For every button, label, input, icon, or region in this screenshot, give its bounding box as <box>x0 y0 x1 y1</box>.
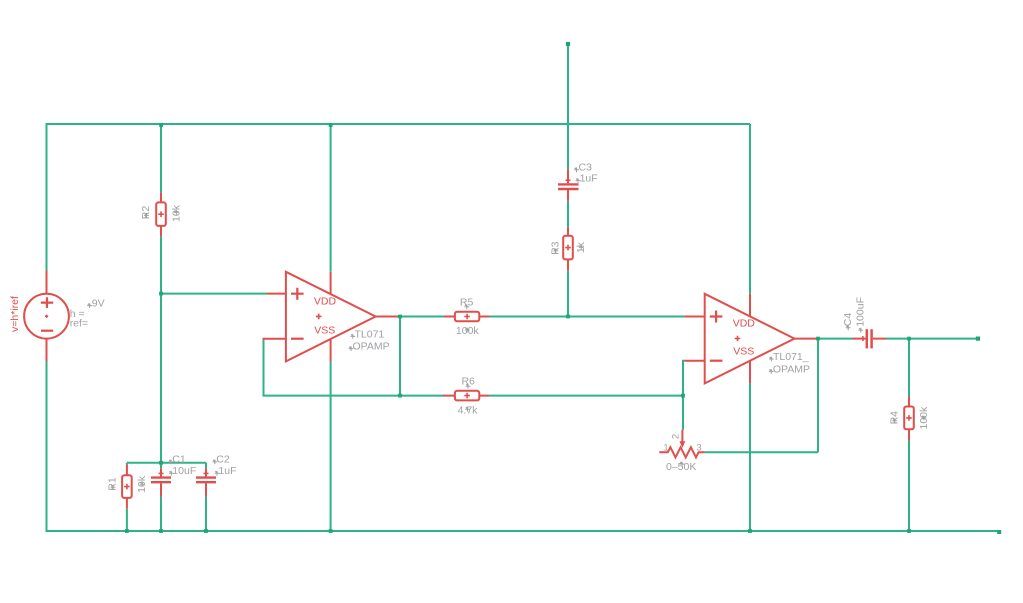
label anchor C2 value <box>215 471 220 476</box>
wire node A vertical <box>399 317 401 396</box>
label anchor RP1 value <box>680 462 685 467</box>
svg-text:10uF: 10uF <box>172 465 196 477</box>
node terminal output right <box>976 337 980 341</box>
node junction U1 output <box>398 315 402 319</box>
wire left rail upper <box>46 123 48 271</box>
label anchor R5 <box>464 304 469 309</box>
svg-text:TL071: TL071 <box>355 328 385 340</box>
svg-text:TL071_: TL071_ <box>773 351 809 363</box>
node junction R6 line <box>398 394 402 398</box>
wire C1 drop <box>160 463 162 468</box>
node terminal C3 top <box>566 42 570 46</box>
wire top bus <box>47 123 751 125</box>
wire R5 to U2 noninverting <box>489 316 684 318</box>
label anchor R3 <box>553 248 558 253</box>
node junction U2 output <box>816 337 820 341</box>
wire R6 line right <box>489 395 683 397</box>
label anchor R2 <box>144 213 149 218</box>
node junction U2 inverting <box>681 394 685 398</box>
label anchor R3 value <box>579 245 584 250</box>
capacitor C1 <box>151 468 171 496</box>
wire C3 column top <box>567 43 569 169</box>
svg-text:2: 2 <box>670 434 681 439</box>
svg-text:C4: C4 <box>842 313 854 327</box>
label anchor U1 part <box>350 334 355 339</box>
wire bottom rail <box>46 530 1000 532</box>
svg-text:100uF: 100uF <box>855 297 867 327</box>
label anchor U1 name <box>349 346 354 351</box>
wire U2 inverting column <box>683 361 684 430</box>
wire C3 to R3 <box>567 201 569 228</box>
node junction C4 R4 <box>907 337 911 341</box>
svg-text:VSS: VSS <box>733 345 754 357</box>
svg-text:VDD: VDD <box>314 296 337 308</box>
wire R4 column upper <box>908 339 910 397</box>
svg-text:VSS: VSS <box>314 325 335 337</box>
svg-text:R2: R2 <box>140 206 152 220</box>
op-amp U2 <box>684 294 816 384</box>
label anchor V1 9V <box>87 303 92 308</box>
capacitor C2 <box>196 468 216 496</box>
wire R1 drop <box>126 463 128 465</box>
label anchor C1 <box>169 460 174 465</box>
label anchor R4 <box>892 418 897 423</box>
voltage source V1 <box>24 271 69 362</box>
wire VSS1 column <box>330 361 332 531</box>
wire R4 column lower <box>908 441 910 532</box>
wire R6 line left <box>263 395 445 397</box>
resistor R5 <box>444 312 490 322</box>
wire C2 drop <box>205 463 207 468</box>
wire R3 down <box>567 271 569 317</box>
node terminal ground right <box>997 530 1001 534</box>
label anchor U2 name <box>769 369 774 374</box>
label anchor U2 part <box>769 357 774 362</box>
node junction ground VSS2 <box>748 529 752 533</box>
svg-text:v=h*iref: v=h*iref <box>9 296 21 332</box>
resistor R2 <box>156 193 166 237</box>
node junction U1 plus input <box>159 292 163 296</box>
label anchor R5 value <box>465 328 470 333</box>
node junction ground VSS1 <box>329 529 333 533</box>
node junction ground R1 <box>125 529 129 533</box>
wire VDD2 column <box>749 124 751 294</box>
wire left rail lower <box>46 362 48 532</box>
wire C4 to output terminal <box>886 338 977 340</box>
wire R1 to ground rail <box>126 509 128 531</box>
wire U1 output to R5 <box>398 316 445 318</box>
label anchor R1 value <box>140 482 145 487</box>
svg-text:OPAMP: OPAMP <box>773 363 810 375</box>
label anchor C1 value <box>169 471 174 476</box>
label anchor C3 value <box>576 178 581 183</box>
op-amp U1 <box>263 272 399 362</box>
svg-text:1uF: 1uF <box>580 172 598 184</box>
wire U2 output to C4 <box>816 338 853 340</box>
node junction C1 bus <box>159 461 163 465</box>
wire R2 column upper <box>160 124 162 193</box>
node junction ground C2 <box>204 529 208 533</box>
capacitor C3 <box>558 169 579 200</box>
wire C2 to ground rail <box>205 497 207 531</box>
label anchor R2 value <box>174 210 179 215</box>
svg-text:ref=: ref= <box>70 317 88 329</box>
resistor R4 <box>904 397 914 441</box>
node junction ground C1 <box>159 529 163 533</box>
svg-text:C1: C1 <box>172 454 186 466</box>
wire C1 to ground rail <box>160 497 162 531</box>
potentiometer RP1 <box>659 430 705 458</box>
wire VSS2 column <box>749 383 751 531</box>
label anchor R6 value <box>465 407 470 412</box>
label anchor R1 <box>111 485 116 490</box>
label anchor C4 <box>846 325 851 330</box>
svg-text:C2: C2 <box>216 454 230 466</box>
resistor R3 <box>563 228 573 271</box>
node junction top VDD1 <box>329 123 333 127</box>
wire C1 bus <box>127 462 206 464</box>
wire R2 column lower <box>160 236 162 462</box>
svg-text:9V: 9V <box>92 297 105 309</box>
wire noninverting input U1 <box>161 293 267 295</box>
svg-text:3: 3 <box>696 442 701 453</box>
wire VDD1 column <box>330 124 332 272</box>
wire pot pin3 to feedback <box>705 451 818 453</box>
svg-text:1: 1 <box>663 442 668 453</box>
label anchor C2 <box>213 460 218 465</box>
resistor R6 <box>443 391 489 401</box>
capacitor C4 <box>853 329 887 348</box>
svg-text:OPAMP: OPAMP <box>353 340 390 352</box>
resistor R1 <box>122 465 132 509</box>
node junction top R2 <box>159 123 163 127</box>
svg-text:1uF: 1uF <box>218 465 236 477</box>
wire U2 feedback down <box>817 339 819 453</box>
wire U1 feedback vertical <box>263 339 265 396</box>
node junction C3 R3 tap <box>566 315 570 319</box>
node junction ground R4 <box>907 529 911 533</box>
label anchor C3 <box>574 167 579 172</box>
label anchor C4 value <box>858 328 863 333</box>
svg-text:VDD: VDD <box>733 317 756 329</box>
label anchor R6 <box>466 384 471 389</box>
label anchor R4 value <box>922 416 927 421</box>
